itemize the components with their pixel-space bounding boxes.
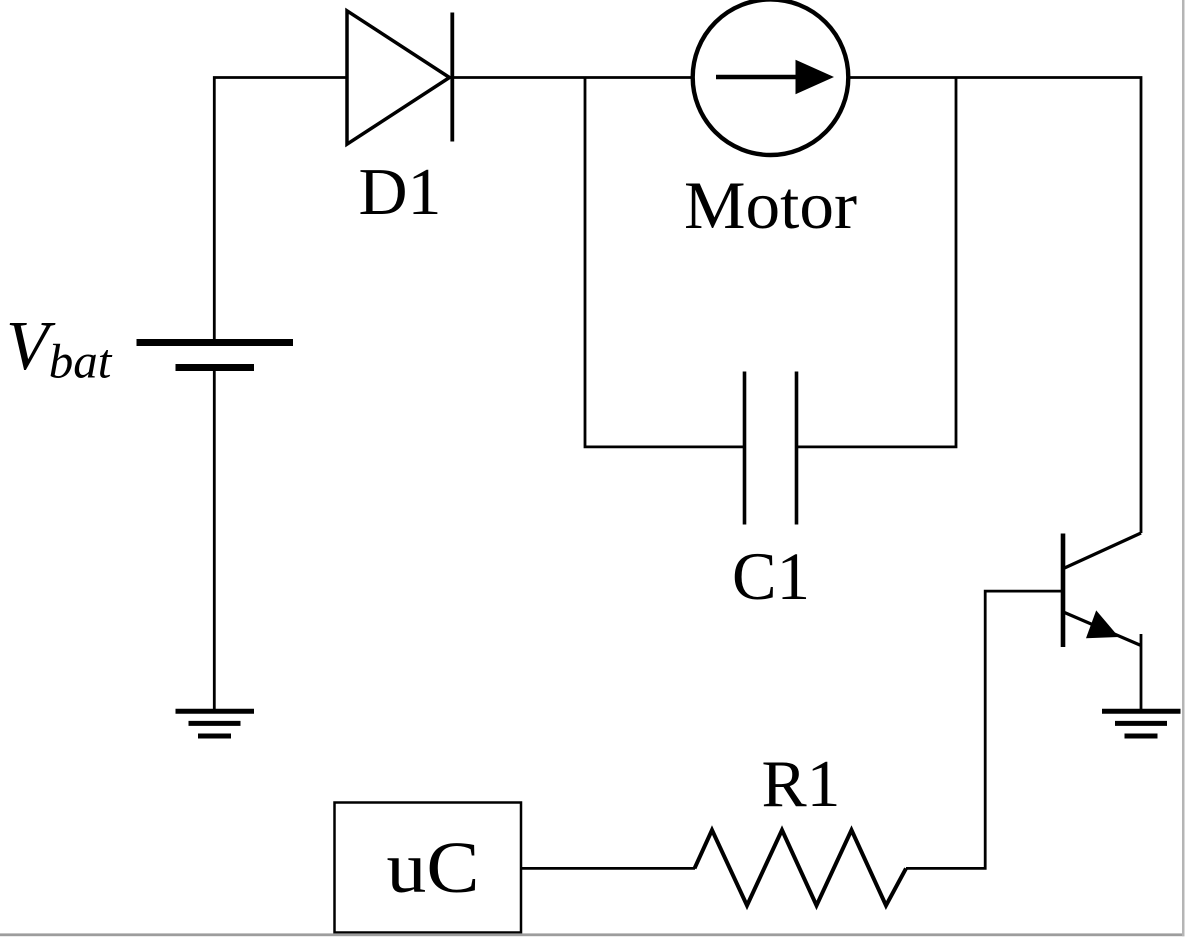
wire battery positive to top-left corner to diode anode <box>214 78 347 343</box>
svg-text:Motor: Motor <box>684 167 857 243</box>
wire left branch from top node down to capacitor <box>585 78 746 447</box>
wire motor to top-right corner down to collector <box>849 78 1141 534</box>
motor M1 (circle with arrow) <box>693 0 849 155</box>
wire battery negative to ground <box>213 371 216 710</box>
resistor R1 <box>695 830 907 906</box>
svg-text:R1: R1 <box>762 747 841 821</box>
wire diode cathode to motor <box>451 76 693 79</box>
wire uC output to resistor <box>521 867 695 870</box>
battery Vbat <box>137 343 294 368</box>
capacitor C1 <box>745 372 797 525</box>
page edge shading (bottom) <box>0 933 1185 936</box>
svg-text:uC: uC <box>387 827 480 908</box>
wire emitter to ground <box>1140 634 1143 710</box>
wire resistor to transistor base <box>906 591 1061 868</box>
wire right branch from capacitor up to top node <box>795 78 956 447</box>
transistor Q1 (NPN) <box>1063 533 1141 647</box>
ground (emitter) <box>1102 711 1181 736</box>
svg-text:D1: D1 <box>359 155 442 229</box>
microcontroller uC box <box>335 803 522 933</box>
ground (battery) <box>176 711 255 736</box>
diode D1 <box>347 11 452 144</box>
page edge shading (right) <box>1182 0 1185 936</box>
svg-text:C1: C1 <box>732 538 810 614</box>
